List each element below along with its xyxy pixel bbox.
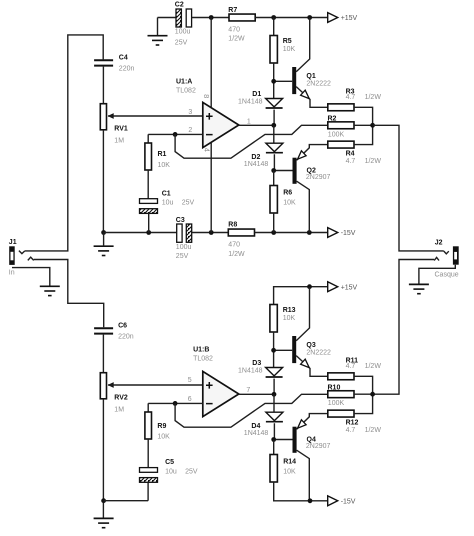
ground (channel B) (94, 518, 114, 527)
diode D4 (244, 412, 283, 437)
junction Q4 collector (308, 498, 313, 503)
node J1 tip contact (19, 251, 25, 254)
power -15V (channel A) (328, 228, 356, 238)
svg-text:TL082: TL082 (176, 87, 196, 94)
wire Q2 base to R6 (273, 171, 275, 186)
svg-text:+15V: +15V (341, 15, 358, 22)
wire D4 to Q4 base (274, 423, 293, 439)
wire C5 to ground rail (147, 482, 149, 500)
svg-text:R14: R14 (283, 459, 296, 466)
wire R10 to node (354, 393, 373, 395)
wire C3 to R8 (192, 232, 229, 234)
wire R5 to D1 and Q1 base (274, 63, 293, 99)
resistor R12 (328, 410, 382, 434)
wire ground rail stem (103, 233, 105, 247)
resistor R9 (145, 412, 170, 441)
svg-text:10K: 10K (283, 46, 296, 53)
svg-text:4.7: 4.7 (346, 427, 356, 434)
junction Q3 collector (307, 284, 312, 289)
diode D1 (238, 91, 283, 108)
wire +15V to R5 (273, 18, 275, 36)
jack J2 (435, 239, 459, 278)
resistor R6 (270, 186, 296, 214)
svg-text:J1: J1 (9, 239, 17, 246)
wire pin 4 supply (210, 142, 212, 232)
svg-text:6: 6 (188, 396, 192, 403)
resistor R3 (328, 89, 382, 111)
transistor Q4 (293, 414, 331, 501)
svg-text:3: 3 (188, 109, 192, 116)
ground (J1) (40, 286, 60, 295)
transistor Q3 (292, 287, 331, 377)
wire R13 to D3 and Q3 base (274, 332, 293, 368)
diode D2 (244, 143, 283, 168)
svg-text:1N4148: 1N4148 (238, 368, 263, 375)
resistor R2 (328, 115, 355, 138)
svg-text:C4: C4 (119, 54, 128, 61)
capacitor C5 (140, 459, 198, 482)
wire C1 to ground rail (148, 213, 150, 232)
svg-text:Q3: Q3 (306, 342, 315, 349)
wire output pin 1 (239, 124, 274, 126)
resistor R8 (228, 221, 254, 257)
svg-text:25V: 25V (175, 39, 188, 46)
node J2 ring contact (434, 257, 439, 260)
wire pin 8 supply (210, 18, 212, 108)
svg-text:R13: R13 (283, 307, 296, 314)
svg-text:2N2907: 2N2907 (306, 443, 331, 450)
wire R6 to -15V rail (273, 213, 275, 233)
svg-text:100K: 100K (328, 131, 345, 138)
svg-text:C1: C1 (162, 190, 171, 197)
wire C2 ground stem (157, 18, 159, 36)
svg-text:RV1: RV1 (114, 126, 128, 133)
junction pin 6 node (173, 401, 178, 406)
junction Q4 base (271, 437, 276, 442)
wire R13 to +15V (274, 287, 328, 305)
junction RV1 ground (101, 230, 106, 235)
svg-text:Casque: Casque (435, 272, 459, 279)
svg-text:220n: 220n (118, 333, 134, 340)
op-amp U1:B (188, 346, 251, 416)
capacitor C4 (94, 54, 134, 72)
svg-text:1N4148: 1N4148 (238, 99, 263, 106)
junction pin8 node (209, 15, 214, 20)
resistor R5 (270, 36, 295, 64)
wire R4 to node (354, 125, 373, 144)
junction Q3 base (271, 348, 276, 353)
svg-text:2N2222: 2N2222 (306, 81, 331, 88)
svg-text:10K: 10K (283, 468, 296, 475)
svg-text:4.7: 4.7 (346, 363, 356, 370)
capacitor C6 (94, 322, 134, 340)
resistor R13 (270, 305, 296, 333)
wire output node to D4 (273, 394, 275, 412)
svg-text:10K: 10K (283, 199, 296, 206)
svg-text:In: In (9, 270, 15, 277)
wire pin 6 (148, 403, 203, 412)
svg-text:1M: 1M (114, 138, 124, 145)
junction pin4 node (209, 230, 214, 235)
junction headphone node A (370, 123, 375, 128)
ground (channel A rail) (94, 246, 114, 255)
resistor R1 (145, 143, 170, 170)
junction Q2 base (271, 168, 276, 173)
svg-text:R1: R1 (158, 151, 167, 158)
svg-text:10u: 10u (162, 199, 174, 206)
wire C6 to RV2 (102, 335, 104, 373)
power -15V (channel B) (328, 496, 356, 506)
wire R3 to node (354, 107, 373, 125)
wire node A to J2 tip (373, 125, 444, 251)
wire R9 to C5 (147, 439, 149, 468)
wire D3 to output node (273, 379, 275, 395)
wire RV2 wiper to pin 5 (108, 384, 203, 386)
svg-text:C3: C3 (176, 217, 185, 224)
wire RV1 wiper to pin 3 (108, 115, 203, 117)
potentiometer RV1 (100, 104, 128, 145)
transistor Q2 (293, 145, 331, 233)
wire R2 to node (354, 124, 373, 126)
svg-text:D3: D3 (252, 360, 261, 367)
junction pin 2 node (173, 132, 178, 137)
junction R6 bottom (271, 230, 276, 235)
wire J1 tip to C4 (25, 35, 103, 251)
wire R1 to C1 (147, 170, 149, 199)
svg-text:1/2W: 1/2W (365, 427, 382, 434)
diode D3 (238, 360, 283, 377)
node J2 tip contact (444, 251, 449, 254)
wire R12 to node (354, 394, 373, 413)
svg-text:2: 2 (188, 127, 192, 134)
op-amp U1:A (176, 78, 251, 152)
svg-text:R2: R2 (328, 115, 337, 122)
svg-text:470: 470 (228, 241, 240, 248)
wire output pin 7 (239, 393, 274, 395)
svg-text:R8: R8 (228, 221, 237, 228)
svg-text:10K: 10K (157, 434, 170, 441)
wire feedback loop B (175, 394, 328, 427)
svg-text:1/2W: 1/2W (228, 36, 245, 43)
resistor R7 (228, 7, 255, 43)
svg-text:R5: R5 (283, 38, 292, 45)
svg-text:R10: R10 (328, 384, 341, 391)
wire R7 to +15V arrow (255, 17, 328, 19)
svg-text:100K: 100K (328, 400, 345, 407)
junction RV2 ground (101, 498, 106, 503)
svg-text:2N2907: 2N2907 (306, 174, 331, 181)
wire R8 to -15V arrow (255, 232, 328, 234)
svg-text:10u: 10u (165, 468, 177, 475)
power +15V (channel B) (328, 282, 358, 292)
junction Q1 collector (307, 15, 312, 20)
capacitor C1 (140, 190, 195, 213)
resistor R14 (270, 455, 296, 483)
wire output node to D2 (273, 125, 275, 143)
wire D2 to Q2 base (274, 154, 293, 170)
resistor R11 (328, 358, 382, 380)
transistor Q1 (292, 18, 331, 108)
svg-text:C2: C2 (175, 2, 184, 9)
junction C1 ground (146, 230, 151, 235)
jack J1 (9, 239, 17, 277)
wire feedback loop (175, 125, 328, 158)
svg-text:R6: R6 (283, 190, 292, 197)
svg-text:8: 8 (202, 94, 211, 98)
svg-text:R7: R7 (228, 7, 237, 14)
svg-text:Q1: Q1 (306, 73, 315, 80)
capacitor C3 (176, 217, 192, 260)
svg-text:1/2W: 1/2W (365, 363, 382, 370)
wire C2 to R7 (192, 17, 229, 19)
svg-text:7: 7 (246, 387, 250, 394)
svg-text:4.7: 4.7 (346, 94, 356, 101)
svg-text:2N2222: 2N2222 (306, 350, 331, 357)
svg-text:1N4148: 1N4148 (244, 430, 269, 437)
potentiometer RV2 (100, 373, 128, 414)
wire J2 ring to node B (373, 260, 435, 395)
svg-text:1M: 1M (114, 407, 124, 414)
wire ground rail segment (104, 232, 177, 234)
wire RV2 bottom to ground (102, 399, 104, 519)
svg-text:-15V: -15V (341, 498, 356, 505)
svg-text:-15V: -15V (341, 230, 356, 237)
svg-text:U1:A: U1:A (176, 78, 192, 85)
capacitor C2 (175, 2, 192, 47)
svg-text:25V: 25V (182, 199, 195, 206)
wire D1 to output node (273, 110, 275, 126)
svg-text:R4: R4 (346, 151, 355, 158)
svg-text:1/2W: 1/2W (228, 251, 245, 258)
ground (J2) (409, 284, 429, 293)
node J1 ring contact (28, 257, 34, 260)
svg-text:J2: J2 (435, 239, 443, 246)
wire J1 ring to C6 (34, 260, 104, 328)
wire J1 sleeve (12, 268, 50, 287)
svg-text:D1: D1 (252, 91, 261, 98)
svg-text:C6: C6 (118, 322, 127, 329)
svg-text:25V: 25V (185, 468, 198, 475)
resistor R10 (328, 384, 355, 407)
junction output node A (271, 123, 276, 128)
wire R14 to -15V rail (274, 482, 328, 501)
power +15V (channel A) (328, 13, 358, 23)
junction Q2 collector (307, 230, 312, 235)
svg-text:1: 1 (247, 118, 251, 125)
svg-text:5: 5 (188, 377, 192, 384)
wire Q4 base to R14 (273, 440, 275, 455)
svg-text:4: 4 (203, 148, 212, 152)
svg-text:TL082: TL082 (193, 355, 213, 362)
wire pin 2 (148, 134, 203, 143)
junction output node B (272, 392, 277, 397)
resistor R4 (328, 141, 382, 165)
wire R11 to node (354, 376, 373, 394)
svg-text:U1:B: U1:B (193, 346, 209, 353)
svg-text:1/2W: 1/2W (365, 158, 382, 165)
svg-text:220n: 220n (119, 65, 135, 72)
svg-text:10K: 10K (158, 162, 171, 169)
junction headphone node B (370, 392, 375, 397)
svg-text:100u: 100u (176, 244, 192, 251)
svg-text:+15V: +15V (341, 284, 358, 291)
wire C4 to RV1 (102, 67, 104, 104)
wire J2 sleeve (419, 265, 455, 285)
svg-text:R12: R12 (346, 420, 359, 427)
svg-text:1N4148: 1N4148 (244, 161, 269, 168)
ground (C2) (148, 36, 168, 45)
svg-text:R9: R9 (157, 423, 166, 430)
svg-text:470: 470 (228, 26, 240, 33)
svg-text:1/2W: 1/2W (365, 94, 382, 101)
svg-text:10K: 10K (283, 315, 296, 322)
junction R5 top (271, 15, 276, 20)
junction Q1 base (271, 79, 276, 84)
wire RV1 bottom to ground rail (102, 130, 104, 233)
svg-text:RV2: RV2 (114, 395, 128, 402)
wire C5 ground segment (104, 500, 149, 502)
svg-text:C5: C5 (165, 459, 174, 466)
svg-text:100u: 100u (175, 29, 191, 36)
wire +15V rail left segment (158, 17, 177, 19)
svg-text:25V: 25V (176, 253, 189, 260)
svg-text:4.7: 4.7 (346, 158, 356, 165)
